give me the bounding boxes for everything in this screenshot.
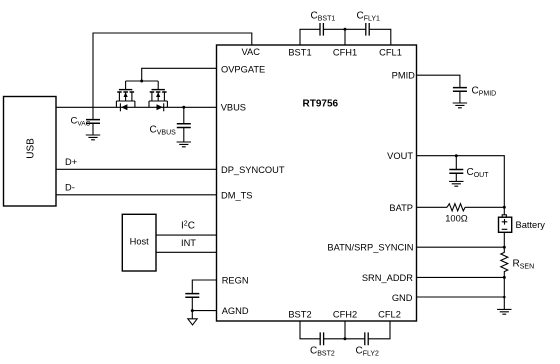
wire GND to ground [417,297,505,309]
svg-text:100Ω: 100Ω [445,213,468,223]
svg-text:RT9756: RT9756 [303,99,339,110]
wire capacitor to AGND [192,298,216,311]
junction CFH1 top node [344,28,347,31]
capacitor CVAC [86,107,100,135]
resistor RSEN [501,247,508,277]
wire VOUT across to battery column [417,156,505,208]
junction GND corner node [503,296,506,299]
junction CFH2 bottom node [344,337,347,340]
wire REGN to bypass capacitor [192,280,216,293]
wire SRN node down to GND corner [503,277,505,297]
svg-text:D+: D+ [65,157,77,167]
junction gate rail node [140,80,143,83]
junction SRN node [503,276,506,279]
wire SRN_ADDR [417,276,505,278]
svg-text:REGN: REGN [222,275,249,285]
svg-text:BST2: BST2 [288,310,311,320]
body diode D1 of Q1 [120,103,127,111]
svg-text:CFL2: CFL2 [378,310,401,320]
wire VAC: node A up and across to VAC pin [93,33,252,107]
Host block [122,214,156,271]
transistor Q2 (OVP MOSFET, right) [149,81,167,107]
capacitor CPMID [453,88,467,92]
wire OVPGATE from IC to gate rail [142,68,217,81]
transistor Q1 (OVP MOSFET, left) [116,81,134,107]
svg-text:CFH2: CFH2 [333,310,357,320]
svg-text:Battery: Battery [516,220,546,230]
wire stub to signal ground [191,311,193,319]
svg-text:VBUS: VBUS [221,102,246,112]
wire PMID to CPMID [417,75,460,87]
svg-text:DP_SYNCOUT: DP_SYNCOUT [221,165,285,175]
wire gate rail [126,80,159,82]
ground for COUT [449,181,463,186]
IC U1 RT9756 body [217,45,417,321]
svg-text:DM_TS: DM_TS [221,190,253,200]
capacitor CBST1 [320,23,323,36]
ground for CVAC [86,135,100,140]
capacitor CBST2 [320,332,323,345]
svg-text:INT: INT [181,238,196,248]
body diode D2 of Q2 [157,103,164,111]
svg-text:I2C: I2C [181,220,195,231]
svg-text:SRN_ADDR: SRN_ADDR [362,273,413,283]
capacitor CFLY2 [365,332,368,345]
wire I2C bus from Host [156,234,217,236]
ground for CVBUS [177,142,191,147]
wire resistor to battery node [465,206,504,208]
junction battery + node [503,206,506,209]
svg-text:CFL1: CFL1 [379,48,402,58]
battery BT1 [499,207,512,247]
wire BST2 riser and bottom flying-cap rail [300,321,390,339]
USB connector block [4,97,57,207]
wire BST1 riser and top flying-cap rail [300,29,391,45]
ground for CPMID [453,103,467,108]
svg-text:BATN/SRP_SYNCIN: BATN/SRP_SYNCIN [327,243,413,253]
ground for GND pin [497,309,511,314]
junction node B (CVBUS) [182,106,185,109]
svg-text:VOUT: VOUT [387,151,413,161]
svg-text:PMID: PMID [392,71,416,81]
wire BATP to resistor [417,206,448,208]
svg-text:Host: Host [130,237,150,247]
capacitor CVBUS [177,107,191,142]
wire D+ from USB to DP_SYNCOUT [56,168,217,170]
svg-text:AGND: AGND [222,306,249,316]
svg-text:BST1: BST1 [288,48,311,58]
svg-text:VAC: VAC [242,47,261,57]
junction AGND node [191,309,194,312]
capacitor COUT [449,156,463,182]
wire D- from USB to DM_TS [56,194,217,196]
wire INT from Host [156,251,217,253]
resistor 100ohm [447,204,465,211]
svg-text:CFH1: CFH1 [333,48,357,58]
junction COUT node [455,154,458,157]
capacitor on REGN [185,294,199,298]
svg-text:USB: USB [26,138,37,159]
wire VBUS line from USB to IC VBUS pin [56,106,217,108]
svg-text:OVPGATE: OVPGATE [221,64,265,74]
svg-text:D-: D- [65,182,75,192]
junction BATN node [503,246,506,249]
capacitor CFLY1 [366,23,369,36]
svg-text:BATP: BATP [389,203,413,213]
signal ground (open triangle) [188,319,197,325]
svg-text:GND: GND [392,293,413,303]
wire BATN/SRP_SYNCIN [417,246,505,248]
